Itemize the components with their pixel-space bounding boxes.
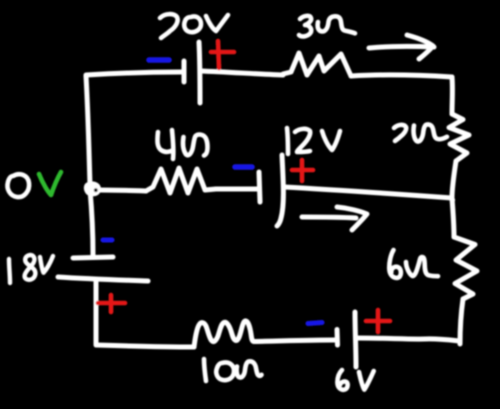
polarity plus (red) at 12V xyxy=(292,160,313,181)
polarity minus (blue) at 20V xyxy=(149,57,169,63)
polarity plus (red) at 18V xyxy=(98,295,125,312)
wire middle horizontal (node to 4-ohm) xyxy=(98,190,146,191)
arrow current direction middle xyxy=(302,207,367,230)
label 4ohm xyxy=(157,130,207,159)
wire top-left vertical (corner to node) xyxy=(86,76,90,186)
label 20V xyxy=(160,14,228,38)
label 2ohm xyxy=(394,124,447,141)
wire top horizontal left (corner to 20V battery) xyxy=(86,72,182,75)
resistor R4 6ohm zigzag (vertical) xyxy=(454,237,477,299)
resistor R1 3ohm zigzag xyxy=(283,53,351,76)
wire left vertical (node to 18V battery) xyxy=(90,190,93,256)
polarity minus (blue) at 6V xyxy=(308,323,322,324)
resistor R5 10ohm zigzag xyxy=(194,321,254,347)
wire right vertical upper (corner to 2-ohm) xyxy=(450,77,455,114)
wire right vertical (2-ohm to middle junction) xyxy=(452,161,456,198)
polarity minus (blue) at 12V xyxy=(235,164,252,170)
battery V2 12V long plate xyxy=(277,155,283,226)
wire left vertical lower (18V battery to bottom-left corner) xyxy=(94,281,99,344)
battery V2 12V short plate xyxy=(259,172,260,202)
polarity minus (blue) at 18V xyxy=(103,238,112,243)
battery V4 6V long plate xyxy=(355,312,356,367)
battery V1 20V short plate xyxy=(182,61,187,82)
wire middle right (12V battery to right wire) xyxy=(284,187,452,198)
junction knot at right wire xyxy=(450,197,455,202)
wire right vertical (middle junction to 6-ohm) xyxy=(452,198,454,237)
polarity plus (red) at 20V xyxy=(211,41,234,68)
wire top horizontal right (resistor to top-right corner) xyxy=(351,75,452,77)
label 0V reference xyxy=(7,172,61,197)
arrow current direction top xyxy=(369,35,434,59)
wire middle (4-ohm to 12V battery) xyxy=(216,187,257,192)
battery V4 6V short plate xyxy=(335,330,341,346)
wire right vertical lower (6-ohm to bottom-right corner) xyxy=(460,299,463,344)
battery V3 18V long plate xyxy=(58,277,148,281)
battery V1 20V long plate xyxy=(199,42,200,103)
label 6ohm xyxy=(389,250,438,278)
wire top horizontal middle (battery to 3-ohm resistor) xyxy=(200,71,283,75)
resistor R2 2ohm zigzag (vertical) xyxy=(449,114,469,161)
label 12V xyxy=(287,128,340,154)
node A (0V reference node blob) xyxy=(84,181,101,196)
label 10ohm xyxy=(204,359,262,381)
wire bottom left horizontal (corner to 10-ohm) xyxy=(96,345,194,347)
resistor R3 4ohm zigzag xyxy=(146,168,216,193)
label 6V xyxy=(337,370,373,390)
label 18V xyxy=(9,255,53,283)
wire bottom right (6V battery to bottom-right corner) xyxy=(356,338,459,341)
battery V3 18V short plate xyxy=(73,257,113,258)
label 3ohm xyxy=(299,16,355,37)
wire bottom middle (10-ohm to 6V battery) xyxy=(254,340,335,342)
polarity plus (red) at 6V xyxy=(366,310,390,332)
